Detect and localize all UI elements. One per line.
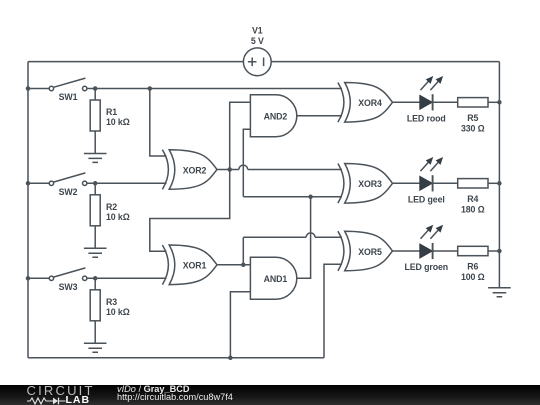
- svg-text:R5: R5: [467, 113, 478, 123]
- resistor R1 10k pulldown: [90, 89, 130, 154]
- node SW1 left rail junction: [26, 86, 31, 91]
- svg-text:LED geel: LED geel: [408, 194, 445, 204]
- plot url: [117, 393, 233, 402]
- svg-text:XOR2: XOR2: [183, 165, 207, 175]
- voltage source V1 5V: [243, 26, 271, 76]
- wire AND2 output to XOR4 lower input: [296, 115, 342, 117]
- svg-text:XOR4: XOR4: [358, 98, 382, 108]
- wire bottom rail: [28, 357, 324, 359]
- wire XOR3 lower input row: [243, 196, 342, 198]
- wire XOR5 upper input row: [243, 236, 306, 238]
- node R6 rail junction: [497, 249, 502, 254]
- svg-text:V1: V1: [252, 26, 263, 36]
- ground below R2: [84, 248, 107, 257]
- wire hop over AND2 lower riser: [239, 165, 248, 169]
- node SW3-R3 junction: [93, 276, 98, 281]
- and gate AND2: [250, 95, 296, 137]
- wire AND1 output riser to XOR3 lower input: [296, 197, 310, 278]
- svg-text:330 Ω: 330 Ω: [461, 123, 485, 133]
- switch SW2: [28, 173, 87, 197]
- svg-text:R1: R1: [106, 107, 117, 117]
- xor gate XOR1: [162, 245, 217, 285]
- diode LED groen: [405, 225, 449, 272]
- svg-text:SW2: SW2: [59, 187, 78, 197]
- wire XOR5 lower input riser: [324, 264, 342, 358]
- diode LED geel: [408, 157, 445, 204]
- xor gate XOR2: [162, 150, 217, 190]
- wire XOR output to LED groen anode: [392, 250, 420, 252]
- wire right rail: [498, 62, 500, 288]
- wire SW1 row branch to XOR2 upper input: [150, 89, 167, 157]
- svg-text:100 Ω: 100 Ω: [461, 272, 485, 282]
- wire SW2 output row: [87, 182, 167, 184]
- wire SW1 output row: [87, 88, 342, 90]
- node XOR2 output junction: [227, 167, 232, 172]
- wire XOR1 output riser to XOR5 upper row: [242, 237, 244, 264]
- svg-text:XOR3: XOR3: [358, 179, 382, 189]
- svg-text:10 kΩ: 10 kΩ: [106, 307, 130, 317]
- wire hop over AND1 output riser: [306, 233, 315, 237]
- and gate AND1: [250, 257, 296, 299]
- svg-text:R6: R6: [467, 262, 478, 272]
- node SW2 left rail junction: [26, 181, 31, 186]
- resistor R6 100 Ω: [458, 246, 488, 282]
- xor gate XOR5: [338, 231, 393, 271]
- svg-text:10 kΩ: 10 kΩ: [106, 117, 130, 127]
- wire LED rood cathode to R5: [434, 101, 458, 103]
- svg-text:SW3: SW3: [59, 282, 78, 292]
- svg-text:R3: R3: [106, 297, 117, 307]
- svg-text:AND1: AND1: [264, 274, 288, 284]
- ground below R3: [84, 343, 107, 352]
- svg-text:10 kΩ: 10 kΩ: [106, 212, 130, 222]
- wire XOR output to LED rood anode: [392, 101, 420, 103]
- node AND1 output junction: [308, 195, 313, 200]
- svg-text:LED rood: LED rood: [407, 113, 446, 123]
- wire AND2 upper input riser: [230, 102, 251, 169]
- plot title vIDo / Gray_BCD: [117, 385, 190, 394]
- wire LED groen cathode to R6: [434, 250, 458, 252]
- svg-text:SW1: SW1: [59, 92, 78, 102]
- svg-text:R2: R2: [106, 202, 117, 212]
- node SW1 row branch junction: [148, 86, 153, 91]
- switch SW1: [28, 78, 87, 102]
- svg-text:180 Ω: 180 Ω: [461, 204, 485, 214]
- node SW3 left rail junction: [26, 276, 31, 281]
- wire SW3 output row: [87, 277, 167, 279]
- wire XOR output to LED geel anode: [392, 182, 420, 184]
- wire XOR2 output down jog to XOR1 upper input: [150, 170, 230, 252]
- ground right rail: [488, 288, 511, 297]
- svg-text:XOR5: XOR5: [358, 247, 382, 257]
- node R5 rail junction: [497, 100, 502, 105]
- switch SW3: [28, 268, 87, 292]
- resistor R3 10k pulldown: [90, 278, 130, 343]
- wire AND1 lower input riser: [230, 292, 250, 358]
- wire XOR1 output to AND1 upper input: [217, 264, 251, 266]
- diode LED rood: [407, 76, 446, 123]
- wire top +5V rail: [28, 61, 243, 63]
- resistor R2 10k pulldown: [90, 183, 130, 248]
- svg-text:R4: R4: [467, 194, 478, 204]
- CircuitLab logo text LAB: [66, 396, 91, 404]
- svg-text:XOR1: XOR1: [183, 261, 207, 271]
- node XOR1 output junction: [241, 263, 246, 268]
- wire AND2 lower input riser: [243, 129, 250, 197]
- ground below R1: [84, 154, 107, 163]
- node SW1-R1 junction: [93, 86, 98, 91]
- resistor R5 330 Ω: [458, 98, 488, 134]
- wire LED geel cathode to R4: [434, 182, 458, 184]
- resistor R4 180 Ω: [458, 179, 488, 215]
- wire left rail: [27, 62, 29, 358]
- svg-text:5 V: 5 V: [251, 36, 264, 46]
- node SW2-R2 junction: [93, 181, 98, 186]
- svg-text:LED groen: LED groen: [405, 262, 449, 272]
- wire R5 to right rail: [488, 101, 499, 103]
- wire R4 to right rail: [488, 182, 499, 184]
- xor gate XOR3: [338, 164, 393, 204]
- wire XOR2 output to XOR3 upper input: [248, 169, 342, 171]
- CircuitLab logo resistor-diode glyph: [27, 395, 69, 405]
- wire XOR5 upper input row right segment: [315, 236, 342, 238]
- footer bar: [0, 385, 540, 405]
- node R4 rail junction: [497, 181, 502, 186]
- wire top rail right of V1: [271, 61, 499, 63]
- node AND1 lower input bottom junction: [228, 356, 233, 361]
- CircuitLab logo text CIRCUIT: [27, 386, 95, 395]
- wire R6 to right rail: [488, 250, 499, 252]
- wire XOR2 output: [217, 169, 239, 171]
- svg-text:AND2: AND2: [264, 112, 288, 122]
- xor gate XOR4: [338, 83, 393, 123]
